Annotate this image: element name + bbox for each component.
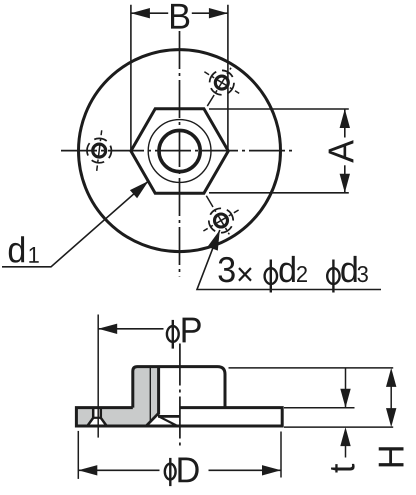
label phiD: [165, 464, 176, 480]
extension line bottom shared: [284, 426, 393, 428]
dimension phiP extension line: [97, 315, 99, 438]
dimension B right arrowhead: [209, 8, 228, 18]
dimension A line lower segment: [344, 165, 346, 193]
countersink chamfer edge: [92, 417, 102, 419]
dimension B label: [171, 4, 189, 29]
dimension phiD right arrowhead: [262, 465, 281, 475]
mounting hole left: thread arcs: [87, 138, 111, 162]
mounting hole bottom-right: tangential center line: [203, 210, 238, 231]
bore chamfer far-side edge: [160, 417, 177, 426]
mounting hole bottom-right: thread arcs: [209, 208, 233, 232]
mounting hole top-right: radial center line: [206, 68, 231, 109]
dimension H line: [390, 385, 392, 410]
horizontal center line (top view): [61, 150, 296, 152]
dimension phiD extension line left: [77, 431, 79, 479]
dimension phiD extension line right: [280, 432, 282, 478]
dimension A line upper segment: [344, 109, 346, 138]
dimension phiP line: [98, 328, 163, 330]
bore wall in section (thick): [157, 367, 160, 415]
mounting hole top-right: thread arcs: [210, 70, 234, 94]
hex nut outline: [131, 109, 228, 193]
dimension phiD left arrowhead: [78, 465, 97, 475]
extension line t top: [284, 407, 355, 409]
dimension t upper line: [345, 369, 347, 408]
dimension A label: [329, 140, 354, 163]
dimension B extension line left: [130, 5, 132, 151]
mounting hole top-right: hole circle: [215, 76, 228, 89]
countersink hole right wall: [101, 408, 107, 426]
dimension t upper arrowhead (down): [340, 389, 350, 408]
section fill (cut material, gray): [76, 367, 158, 426]
bore chamfer edge line: [158, 415, 180, 418]
dimension phiP arrowhead: [98, 324, 117, 334]
label phi d3: [327, 268, 339, 284]
bore chamfer diagonal: [146, 413, 158, 426]
dimension A extension line bottom: [209, 192, 349, 194]
extension line H top: [229, 367, 394, 369]
label d1: [9, 236, 24, 262]
dimension phiD line left segment: [78, 469, 159, 471]
label phiP: [167, 326, 179, 342]
dimension t lower line: [345, 445, 347, 457]
thread line in section (thin): [149, 368, 151, 422]
leader arrowhead d1: [130, 181, 149, 198]
leader arrowhead 3xd2: [208, 230, 220, 251]
vertical center line (top view): [179, 31, 181, 277]
dimension B line right segment: [192, 12, 228, 14]
mounting hole bottom-right: hole circle: [215, 214, 228, 227]
label t: [331, 464, 355, 473]
leader line for d1: [2, 181, 149, 267]
dimension B line left segment: [131, 12, 168, 14]
dimension A extension line top: [209, 108, 349, 110]
dimension A top arrowhead: [340, 109, 350, 128]
dimension A bottom arrowhead: [340, 174, 350, 193]
label 3x phi d2: [219, 257, 235, 282]
dimension H top arrowhead (up): [386, 368, 396, 387]
dimension phiD line right segment: [209, 469, 282, 471]
dimension H bottom arrowhead (down): [386, 408, 396, 427]
mounting hole bottom-right: radial center line: [205, 193, 230, 234]
nut boss outline: [133, 367, 225, 408]
mounting hole left: tangential center line: [97, 130, 102, 171]
thread major circle (thin): [148, 120, 211, 183]
label H: [379, 447, 404, 466]
countersink hole void (white): [87, 408, 106, 426]
nut bore circle (thick): [159, 130, 200, 171]
leader line for 3xd2 d3: [197, 230, 381, 290]
mounting hole top-right: tangential center line: [204, 72, 239, 94]
section view center line: [179, 344, 181, 448]
dimension t lower arrowhead (up): [340, 427, 350, 446]
flange plate outline: [76, 408, 282, 426]
mounting hole left: hole circle: [93, 144, 106, 157]
flange outer circle: [79, 50, 281, 252]
dimension B extension line right: [227, 5, 229, 151]
dimension B left arrowhead: [131, 8, 150, 18]
countersink hole left wall: [87, 408, 93, 426]
